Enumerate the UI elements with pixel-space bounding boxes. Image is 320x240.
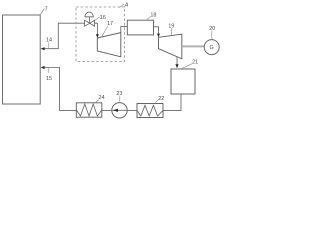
valve V16 body <box>85 20 95 26</box>
arrow into turbine 17 <box>96 34 99 38</box>
label 14 leader <box>48 43 50 49</box>
svg-text:18: 18 <box>150 13 156 19</box>
label 22 leader <box>155 99 158 103</box>
label A leader <box>120 4 125 8</box>
svg-text:G: G <box>210 45 214 51</box>
svg-text:24: 24 <box>99 95 105 101</box>
reheater 18 <box>127 20 153 35</box>
svg-text:23: 23 <box>116 91 122 97</box>
wire pump 23 to hx 24 <box>102 109 112 111</box>
wire reheater 18 to turbine 19 <box>154 27 159 34</box>
label 20 leader <box>211 31 213 40</box>
svg-text:21: 21 <box>192 60 198 66</box>
pump 23 <box>112 103 127 118</box>
svg-text:15: 15 <box>46 76 52 82</box>
valve V16 actuator dome <box>85 12 94 17</box>
turbine 17 <box>97 33 121 57</box>
label 17 leader <box>102 26 108 37</box>
wire turbine 19 to condenser 21 <box>176 57 178 65</box>
heat exchanger 24 <box>76 103 102 117</box>
svg-text:7: 7 <box>45 7 48 13</box>
arrow into boiler 14 <box>41 47 45 50</box>
arrow into condenser 21 <box>175 64 178 68</box>
label 19 leader <box>170 28 172 36</box>
label 21 leader <box>182 64 193 69</box>
wire condenser 21 to hx 22 <box>163 94 181 110</box>
pump 23 internal line <box>112 109 127 111</box>
valve V16 stem <box>89 17 91 23</box>
label 23 leader <box>119 96 121 103</box>
hx 24 zigzag <box>76 104 102 116</box>
svg-text:16: 16 <box>100 15 106 21</box>
shaft turbine 19 to generator <box>182 45 205 47</box>
heat exchanger 22 <box>137 104 163 118</box>
arrow into boiler 15 <box>41 66 45 69</box>
arrow into turbine 19 <box>157 34 160 38</box>
wire valve to turbine 17 <box>95 23 98 35</box>
svg-text:22: 22 <box>158 96 164 102</box>
wire hx 22 to pump 23 <box>127 109 137 111</box>
hx 22 zigzag <box>137 105 163 116</box>
label 15 leader <box>48 68 50 73</box>
svg-text:17: 17 <box>107 21 113 27</box>
label 16 leader <box>95 17 100 21</box>
svg-text:20: 20 <box>209 26 215 32</box>
boiler 7 <box>3 15 41 104</box>
pump 23 arrow <box>113 109 118 112</box>
label 7 leader <box>40 9 44 15</box>
svg-text:A: A <box>124 3 129 9</box>
label 18 leader <box>146 16 151 20</box>
generator G20 <box>204 40 219 55</box>
label 24 leader <box>96 100 99 103</box>
dashed box A <box>76 7 125 62</box>
turbine 19 <box>159 34 182 59</box>
svg-text:14: 14 <box>46 38 52 44</box>
condenser 21 <box>171 69 195 94</box>
wire turbine 17 to reheater 18 <box>121 27 128 33</box>
wire feedwater pipe 15 <box>44 68 76 111</box>
svg-text:19: 19 <box>168 24 174 30</box>
wire steam pipe to valve <box>44 23 85 49</box>
